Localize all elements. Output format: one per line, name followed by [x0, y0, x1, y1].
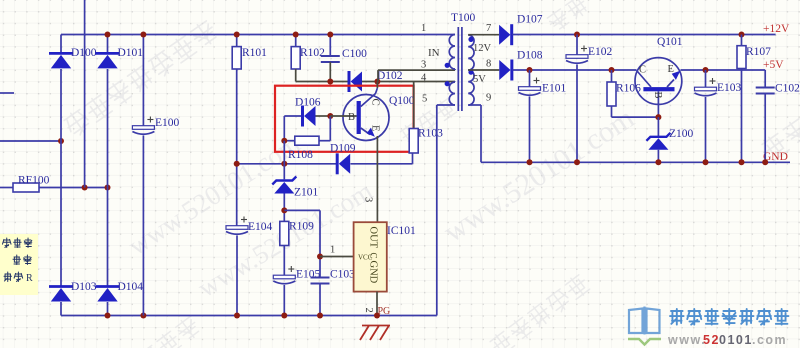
resistor R103 — [413, 82, 415, 129]
junction — [327, 113, 333, 119]
junction — [234, 32, 240, 38]
svg-text:0101: 0101 — [719, 333, 753, 347]
junction — [739, 32, 745, 38]
svg-text:R108: R108 — [288, 149, 313, 161]
svg-text:C: C — [370, 99, 381, 106]
wire AC line 1 — [0, 140, 61, 142]
svg-text:R: R — [26, 273, 33, 284]
wire pin 9 to ground rail — [468, 104, 481, 106]
svg-text:R103: R103 — [418, 128, 443, 140]
junction — [609, 67, 615, 73]
svg-text:www.: www. — [667, 333, 706, 347]
junction — [317, 313, 323, 319]
svg-text:3: 3 — [363, 197, 374, 202]
resistor R101 — [236, 35, 238, 47]
junction — [82, 185, 88, 191]
wire pin 8 to D108 — [468, 69, 499, 71]
svg-text:8: 8 — [486, 59, 491, 70]
logo title — [670, 309, 684, 325]
resistor R108 — [284, 140, 295, 142]
wire pin 7 to D107 — [468, 34, 499, 36]
diode D103 — [49, 285, 73, 288]
junction — [140, 32, 146, 38]
svg-text:1: 1 — [330, 245, 335, 256]
svg-text:5: 5 — [422, 94, 427, 105]
capacitor C102 — [764, 70, 766, 88]
junction — [281, 207, 287, 213]
wire emitter column — [376, 136, 378, 222]
diode D107 — [499, 25, 510, 45]
svg-text:E104: E104 — [248, 221, 273, 233]
svg-text:IN: IN — [428, 47, 440, 59]
wire primary ground bottom rail — [61, 315, 437, 317]
wire IC pin 2 — [376, 292, 378, 316]
svg-text:Q101: Q101 — [657, 36, 683, 48]
resistor R102 — [295, 35, 297, 47]
note box — [0, 234, 38, 295]
transistor Q101 — [635, 58, 682, 118]
junction — [105, 32, 111, 38]
svg-text:IC101: IC101 — [387, 225, 416, 237]
junction — [762, 159, 768, 165]
svg-text:D102: D102 — [377, 70, 403, 82]
junction — [574, 159, 580, 165]
junction — [327, 79, 333, 85]
svg-text:D104: D104 — [118, 281, 144, 293]
wire D106 branch — [284, 115, 301, 117]
svg-text:D108: D108 — [517, 50, 543, 62]
svg-text:3: 3 — [421, 60, 426, 71]
wire secondary ground rail — [481, 161, 790, 163]
junction — [105, 313, 111, 319]
junction — [105, 185, 111, 191]
svg-text:+5V: +5V — [763, 59, 784, 71]
capacitor E103 — [705, 70, 707, 89]
svg-text:R102: R102 — [300, 47, 325, 59]
zener Z101 — [272, 177, 296, 185]
svg-text:7: 7 — [486, 23, 491, 34]
diode D100 — [49, 52, 73, 55]
capacitor E105 — [273, 275, 295, 279]
wire base to zener — [657, 117, 659, 137]
junction — [58, 138, 64, 144]
svg-text:T100: T100 — [451, 12, 476, 24]
svg-text:D107: D107 — [517, 14, 543, 26]
zener Z100 — [646, 133, 670, 141]
junction — [281, 138, 287, 144]
resistor R107 — [741, 35, 743, 46]
svg-text:E101: E101 — [542, 83, 567, 95]
svg-text:C: C — [639, 65, 646, 76]
junction — [527, 67, 533, 73]
junction — [234, 313, 240, 319]
wire Z101 column — [283, 141, 285, 180]
diode D104 — [96, 285, 120, 288]
svg-text:E100: E100 — [155, 117, 180, 129]
junction — [327, 32, 333, 38]
capacitor E100 with column — [142, 35, 144, 128]
svg-text:D106: D106 — [295, 97, 321, 109]
svg-text:+12V: +12V — [763, 23, 790, 35]
svg-text:2: 2 — [363, 308, 374, 313]
junction — [703, 67, 709, 73]
svg-text:Z100: Z100 — [669, 128, 694, 140]
svg-text:C103: C103 — [330, 269, 355, 281]
junction — [140, 313, 146, 319]
diode D109 — [336, 153, 339, 174]
svg-text:B: B — [348, 112, 355, 123]
junction — [317, 254, 323, 260]
logo book icon — [628, 307, 661, 345]
wire AC input stub — [0, 92, 14, 94]
junction — [374, 313, 380, 319]
capacitor E104 — [226, 226, 248, 230]
wire HV+ top rail — [61, 34, 455, 36]
svg-text:E105: E105 — [296, 269, 321, 281]
logo url — [667, 333, 787, 347]
svg-text:Q100: Q100 — [389, 95, 415, 107]
svg-text:RF100: RF100 — [18, 175, 50, 187]
capacitor C100 — [329, 35, 331, 57]
highlight box — [275, 86, 414, 152]
svg-text:12V: 12V — [473, 43, 492, 54]
wire IC pin 1 — [320, 256, 354, 258]
svg-text:D101: D101 — [118, 47, 144, 59]
svg-text:E: E — [370, 125, 381, 131]
svg-text:PG: PG — [378, 306, 391, 317]
svg-text:Z101: Z101 — [294, 187, 319, 199]
diode D101 — [96, 52, 120, 55]
svg-text:D103: D103 — [71, 281, 97, 293]
svg-text:E103: E103 — [717, 82, 742, 94]
power ground symbol — [360, 326, 390, 341]
diode D108 — [499, 60, 510, 80]
junction — [574, 32, 580, 38]
junction — [739, 159, 745, 165]
svg-text:E102: E102 — [588, 46, 613, 58]
junction — [655, 159, 661, 165]
junction — [527, 159, 533, 165]
wire +5V rail right segment — [681, 69, 766, 71]
resistor R106 — [611, 70, 613, 82]
junction base node — [655, 114, 661, 120]
svg-text:R107: R107 — [746, 46, 771, 58]
svg-text:.com: .com — [752, 333, 787, 347]
wire zener to R109 — [283, 194, 285, 222]
svg-text:D109: D109 — [330, 143, 356, 155]
diode D106 — [301, 106, 304, 127]
capacitor C103 — [311, 277, 330, 279]
wire D101/D104 column — [107, 35, 109, 54]
wire pin5 return column — [436, 105, 438, 316]
capacitor E101 — [529, 70, 531, 89]
wire pin3 jog — [378, 69, 455, 71]
junction — [703, 159, 709, 165]
wire zener to ground — [657, 150, 659, 163]
junction — [234, 161, 240, 167]
wire +12V rail — [512, 34, 775, 36]
wire column from top edge — [84, 0, 86, 188]
wire +5V rail left segment — [513, 69, 637, 71]
svg-text:9: 9 — [486, 93, 491, 104]
svg-text:GND: GND — [368, 261, 379, 284]
capacitor E102 — [576, 35, 578, 57]
transformer T100 — [445, 27, 474, 111]
svg-text:D100: D100 — [71, 47, 97, 59]
svg-text:C100: C100 — [342, 48, 367, 60]
transistor Q100 — [330, 82, 389, 141]
junction — [281, 313, 287, 319]
svg-text:B: B — [652, 92, 663, 99]
svg-text:R109: R109 — [289, 221, 314, 233]
wire feedback node — [284, 209, 320, 211]
svg-text:4: 4 — [421, 73, 427, 84]
junction — [293, 32, 299, 38]
svg-text:52: 52 — [703, 333, 720, 347]
svg-text:1: 1 — [421, 23, 426, 34]
diode D102 — [348, 71, 351, 92]
svg-text:C102: C102 — [775, 83, 800, 95]
wire clamp network to pin4 — [295, 69, 297, 82]
wire D100/D103 column — [60, 35, 62, 54]
svg-text:R101: R101 — [242, 47, 267, 59]
junction collector node — [374, 79, 380, 85]
svg-text:OUT: OUT — [368, 227, 379, 249]
resistor R109 — [280, 221, 289, 245]
svg-text:5V: 5V — [473, 74, 486, 85]
op-amp IC101 box — [354, 222, 387, 291]
wire base drive — [237, 163, 336, 165]
resistor RF100 — [0, 187, 13, 189]
svg-text:E: E — [668, 64, 674, 75]
junction — [281, 161, 287, 167]
